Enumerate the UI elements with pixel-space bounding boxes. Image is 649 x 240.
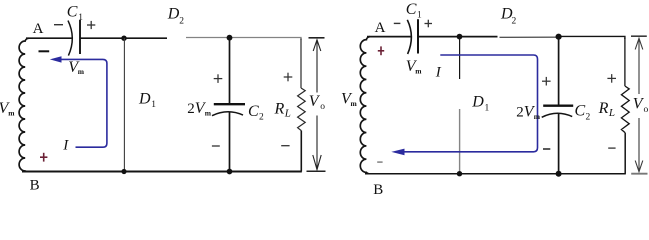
svg-text:2: 2 (516, 105, 524, 121)
svg-text:R: R (598, 100, 609, 117)
svg-text:D: D (471, 94, 484, 111)
label: minus below RL (right circuit) (608, 147, 615, 149)
svg-text:2: 2 (512, 16, 517, 26)
inductor L (transformer winding, left circuit) (19, 38, 29, 171)
voltage arrow Vo (left circuit, double-headed) (307, 38, 326, 171)
label: red plus near top of coil (right circuit) (378, 46, 384, 55)
label: minus below C2 (left circuit) (212, 145, 220, 147)
svg-text:L: L (284, 107, 291, 119)
wire: bottom wire (right circuit) (365, 173, 626, 175)
svg-text:C: C (248, 103, 259, 120)
svg-text:1: 1 (151, 100, 156, 110)
svg-text:m: m (415, 66, 422, 75)
arrowhead of current loop I (left circuit) (50, 56, 62, 62)
svg-text:R: R (274, 100, 285, 117)
svg-text:I: I (62, 137, 69, 153)
diode D2 conducting thin wire segment (right circuit) (500, 36, 559, 38)
node: junction dot bottom of C2 (right circuit) (556, 171, 562, 177)
current loop I (left circuit, blue) (59, 59, 107, 147)
node: junction dot top of C2 (right circuit) (556, 34, 562, 40)
wire: top from C2 dot to RL corner (right circuit) (559, 36, 625, 39)
voltage arrow Vo (right circuit, double-headed) (631, 36, 648, 174)
label: gray minus near bottom of coil (right circuit) (377, 161, 382, 163)
svg-text:D: D (138, 90, 151, 107)
svg-text:1: 1 (78, 13, 83, 23)
current loop I (right circuit, blue) (400, 55, 538, 152)
arrowhead of current loop I (right circuit) (391, 149, 404, 156)
wire: top from C1 to D2 thin segment (right circuit) (418, 36, 498, 38)
label: plus sign right of C1 (left circuit) (87, 21, 95, 29)
label: minus below RL (left circuit) (281, 145, 289, 147)
node: junction dot top of C2 (left circuit) (227, 35, 233, 41)
svg-text:o: o (644, 105, 649, 115)
label: plus above C2 (right circuit) (542, 77, 551, 86)
svg-text:2: 2 (187, 101, 195, 117)
wire: top from C1 to D2 gap (left circuit) (80, 37, 167, 39)
label: red plus near bottom of coil (left circuit) (40, 153, 47, 162)
node: junction dot top of D1 (left circuit) (121, 36, 126, 41)
svg-text:2: 2 (179, 17, 184, 27)
svg-text:L: L (608, 107, 615, 119)
svg-text:m: m (205, 108, 212, 117)
label: plus sign right of C1 (right circuit) (425, 20, 433, 28)
node: junction dot top of D1 (right circuit) (457, 34, 463, 40)
wire: top left from coil to C1 (right circuit) (367, 36, 411, 38)
diode D1 branch upper black segment (right circuit) (459, 37, 461, 79)
label: bold minus near top of coil (left circuit) (39, 50, 50, 52)
label: minus sign left of C1 (right circuit) (394, 22, 401, 24)
node: junction dot bottom of D1 (left circuit) (121, 169, 126, 174)
svg-text:m: m (8, 109, 15, 118)
diode D1 branch lower gray segment (right circuit) (459, 109, 461, 174)
svg-text:2: 2 (259, 112, 264, 122)
label: plus above RL (right circuit) (607, 74, 616, 83)
wire: bottom wire (left circuit) (22, 171, 302, 173)
capacitor C2 (right circuit): top stem, straight plate, curved plate, bottom stem (542, 37, 574, 174)
node: junction dot bottom of C2 (left circuit) (227, 169, 233, 175)
node: junction dot bottom of D1 (right circuit) (457, 171, 462, 176)
svg-text:B: B (30, 177, 40, 193)
resistor RL (left circuit): top stem, zigzag, bottom stem (298, 39, 306, 172)
svg-text:o: o (320, 102, 325, 112)
svg-text:m: m (534, 112, 541, 121)
label: minus below C2 (right circuit) (543, 148, 550, 150)
svg-text:A: A (375, 20, 386, 36)
resistor RL (right circuit): top stem, zigzag, bottom stem (621, 38, 629, 174)
svg-text:A: A (33, 21, 44, 37)
svg-text:m: m (78, 67, 85, 76)
svg-text:I: I (435, 64, 442, 80)
svg-text:C: C (575, 103, 586, 120)
svg-text:1: 1 (417, 10, 422, 20)
capacitor C1 (left circuit, curved plate left, straight plate right) (68, 20, 80, 56)
diode D1 branch (vertical wire, left circuit) (123, 38, 125, 172)
capacitor C1 (right circuit, curved plate left, straight plate right) (407, 19, 418, 54)
label: plus above C2 (left circuit) (214, 74, 223, 83)
label: minus sign left of C1 (left circuit) (54, 24, 63, 26)
capacitor C2 (left circuit): top stem, straight plate, curved plate, bottom stem (212, 38, 245, 172)
svg-text:C: C (67, 4, 78, 21)
wire: top left from coil to C1 (left circuit) (26, 37, 72, 39)
wire: gray top wire right of D2 gap (left circuit) (186, 38, 301, 41)
svg-text:1: 1 (485, 103, 490, 113)
svg-text:C: C (406, 1, 417, 18)
inductor L (transformer winding, right circuit) (360, 37, 370, 174)
svg-text:2: 2 (586, 112, 591, 122)
svg-text:D: D (167, 5, 180, 22)
svg-text:B: B (373, 182, 383, 196)
label: plus above RL (left circuit) (284, 73, 293, 82)
svg-text:m: m (351, 99, 358, 108)
